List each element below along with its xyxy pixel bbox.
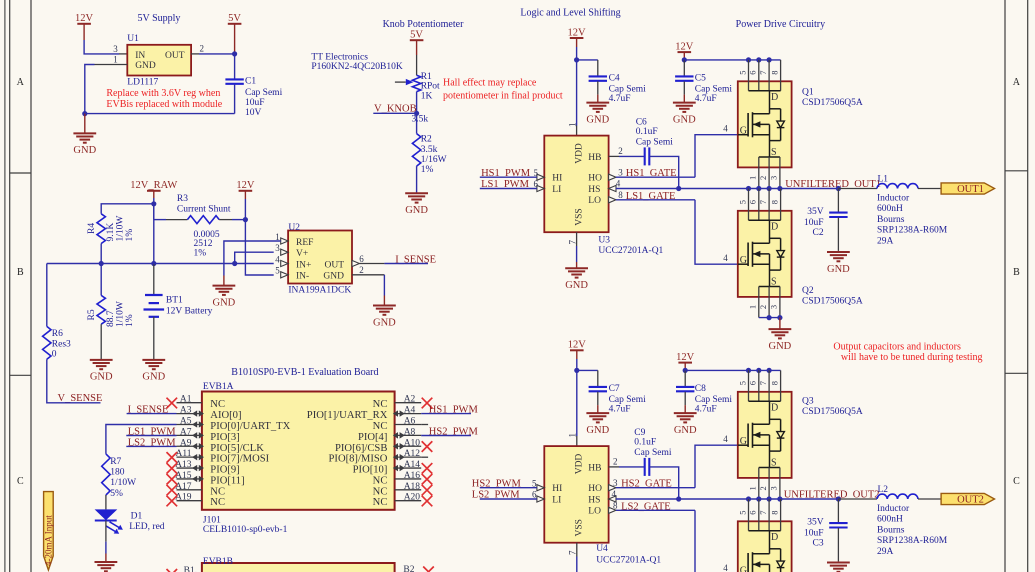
svg-text:A19: A19: [175, 493, 192, 503]
wire HS1_PWM to HI: [480, 176, 537, 178]
pin A10 PIO[6]/CSB: [395, 445, 422, 447]
svg-text:CSD17506Q5A: CSD17506Q5A: [802, 297, 863, 307]
pin A4 PIO[1]/UART_RX: [395, 413, 422, 415]
svg-text:6: 6: [748, 200, 758, 204]
svg-text:5V Supply: 5V Supply: [138, 13, 181, 24]
svg-text:1: 1: [748, 486, 758, 490]
connector EVB1A: [202, 392, 395, 510]
svg-text:S: S: [771, 457, 777, 468]
svg-text:VSS: VSS: [575, 519, 585, 536]
svg-text:2: 2: [758, 486, 768, 490]
power 12V_RAW: [130, 180, 177, 198]
resistor R7: [102, 454, 110, 495]
wire LS2_PWM to A9: [126, 445, 176, 447]
junction Q2 source: [767, 315, 772, 320]
ground: [586, 405, 609, 436]
svg-text:12V: 12V: [236, 180, 255, 191]
svg-text:V+: V+: [296, 249, 308, 259]
svg-text:R3: R3: [177, 194, 188, 204]
wire REF to gnd: [224, 241, 281, 276]
junction Q1 drain pins: [746, 57, 751, 62]
svg-text:Inductor: Inductor: [877, 504, 910, 514]
wire R2 to gnd: [416, 166, 418, 193]
ground: [213, 276, 236, 309]
wire R7 to D1: [105, 495, 107, 509]
port 4-20mA Input: [44, 492, 54, 570]
pin A2 NC: [395, 402, 422, 404]
svg-text:U4: U4: [596, 544, 608, 554]
wire HS2_GATE to Q3 gate: [616, 487, 695, 489]
ground: [769, 318, 792, 352]
svg-text:EVB1B: EVB1B: [203, 557, 233, 567]
wire 12V rail to Q3 drain: [685, 369, 780, 371]
svg-text:LI: LI: [552, 185, 561, 195]
svg-text:PIO[4]: PIO[4]: [358, 432, 387, 443]
wire LS2_PWM to LI: [480, 498, 537, 500]
svg-text:6: 6: [534, 179, 539, 189]
svg-text:Knob Potentiometer: Knob Potentiometer: [383, 19, 464, 30]
svg-text:PIO[1]/UART_RX: PIO[1]/UART_RX: [307, 410, 388, 421]
svg-text:C: C: [1013, 476, 1020, 487]
svg-text:EVBis replaced with module: EVBis replaced with module: [106, 99, 222, 110]
gate driver U4 UCC27201A-Q1: [544, 446, 608, 543]
wire R4 to junction: [100, 244, 102, 264]
svg-text:5: 5: [275, 266, 280, 276]
svg-text:CSD17506Q5A: CSD17506Q5A: [802, 98, 863, 108]
svg-text:A13: A13: [175, 460, 192, 470]
svg-text:UCC27201A-Q1: UCC27201A-Q1: [598, 246, 663, 256]
pin arrows U2: [281, 238, 288, 244]
svg-text:4: 4: [612, 489, 617, 499]
wire gnd rail to C1: [85, 113, 235, 115]
junction divider mid: [99, 261, 104, 266]
wire R1 to V_KNOB node: [416, 92, 418, 134]
svg-text:B: B: [17, 267, 24, 278]
svg-text:C5: C5: [695, 74, 706, 84]
wire 12V_RAW stem: [153, 198, 155, 204]
svg-text:10V: 10V: [245, 108, 262, 118]
svg-text:5V: 5V: [228, 13, 241, 24]
resistor R6: [46, 264, 48, 327]
svg-text:4.7uF: 4.7uF: [695, 94, 717, 104]
wire U1 pin2 to 5V: [191, 53, 199, 55]
wire HS to switch node: [616, 188, 679, 190]
svg-text:PIO[9]: PIO[9]: [210, 465, 239, 476]
svg-text:3: 3: [618, 167, 623, 177]
svg-text:Hall effect may replace: Hall effect may replace: [443, 78, 537, 89]
svg-text:C2: C2: [813, 228, 824, 238]
wire U3 VSS to gnd: [576, 232, 578, 246]
svg-text:Output capacitors and inductor: Output capacitors and inductors: [833, 342, 961, 353]
svg-text:PIO[7]/MOSI: PIO[7]/MOSI: [210, 454, 269, 465]
svg-text:7: 7: [568, 240, 578, 245]
svg-text:12V: 12V: [675, 42, 694, 53]
svg-text:12V: 12V: [568, 340, 587, 351]
svg-text:1: 1: [748, 305, 758, 309]
capacitor C2: [836, 186, 841, 191]
svg-text:Cap Semi: Cap Semi: [634, 448, 672, 458]
ground: [674, 405, 697, 436]
svg-text:Current Shunt: Current Shunt: [177, 205, 231, 215]
svg-text:HO: HO: [588, 174, 602, 184]
pin A14 PIO[10]: [395, 467, 422, 469]
junction 12V_RAW branch: [151, 201, 156, 206]
svg-text:P160KN2-4QC20B10K: P160KN2-4QC20B10K: [311, 62, 402, 72]
ground: [73, 114, 96, 157]
svg-text:will have to be tuned during t: will have to be tuned during testing: [841, 352, 983, 363]
svg-text:D: D: [771, 92, 778, 103]
svg-text:NC: NC: [373, 475, 388, 486]
svg-text:CSD17506Q5A: CSD17506Q5A: [802, 407, 863, 417]
ground: [405, 193, 428, 216]
svg-text:B1.: B1.: [184, 566, 197, 572]
svg-text:A5: A5: [180, 416, 192, 426]
no-connect marks right: [422, 398, 433, 409]
wire 12V to U1 pin3: [84, 40, 119, 54]
svg-text:NC: NC: [210, 399, 225, 410]
wire LS1_PWM to A7: [126, 435, 176, 437]
svg-text:4: 4: [723, 253, 728, 263]
wire 12V to U4 VDD: [576, 359, 578, 436]
wire to R4: [101, 204, 154, 214]
svg-text:4: 4: [723, 124, 728, 134]
wire from A12: [421, 456, 428, 458]
svg-text:3: 3: [769, 305, 779, 309]
svg-text:GND: GND: [73, 145, 96, 156]
svg-text:7: 7: [568, 550, 578, 555]
port OUT1: [941, 183, 994, 194]
svg-text:A4: A4: [404, 406, 416, 416]
svg-text:IN+: IN+: [296, 260, 311, 270]
svg-text:12V: 12V: [568, 27, 587, 38]
svg-text:Cap Semi: Cap Semi: [245, 88, 283, 98]
svg-text:J101: J101: [203, 515, 221, 525]
junction 12V U3: [574, 57, 579, 62]
ground: [827, 251, 850, 275]
svg-text:1/16W: 1/16W: [421, 155, 447, 165]
svg-text:Res3: Res3: [52, 339, 71, 349]
svg-text:2: 2: [618, 146, 623, 156]
wire V_KNOB: [373, 112, 416, 114]
transistor Q4 CSD17506Q5A: [738, 499, 792, 572]
svg-text:A10: A10: [404, 438, 421, 448]
svg-text:A17: A17: [175, 482, 192, 492]
capacitor C7: [577, 369, 598, 371]
power 12V: [75, 13, 94, 40]
svg-text:6: 6: [748, 381, 758, 385]
svg-text:R5: R5: [87, 309, 97, 320]
transistor Q1 CSD17506Q5A: [738, 60, 792, 189]
svg-text:3: 3: [613, 478, 618, 488]
svg-text:8: 8: [618, 190, 623, 200]
power 12V: [676, 352, 695, 370]
svg-text:5V: 5V: [410, 30, 423, 41]
svg-text:35V: 35V: [807, 518, 824, 528]
svg-text:GND: GND: [142, 372, 165, 383]
svg-text:7: 7: [758, 71, 768, 75]
power 12V: [568, 340, 587, 359]
svg-text:A8: A8: [404, 427, 416, 437]
svg-text:G: G: [740, 436, 747, 447]
svg-text:NC: NC: [210, 497, 225, 508]
transistor Q3 CSD17506Q5A: [738, 370, 792, 499]
svg-text:GND: GND: [769, 341, 792, 352]
svg-text:GND: GND: [323, 272, 344, 282]
svg-text:12V: 12V: [676, 352, 695, 363]
svg-text:Q3: Q3: [802, 397, 814, 407]
capacitor C1: [234, 54, 236, 79]
svg-text:HI: HI: [552, 174, 562, 184]
junction 12V C5/Q1: [682, 57, 687, 62]
svg-text:AIO[0]: AIO[0]: [210, 410, 241, 421]
wire LS1_GATE to Q2 gate: [616, 199, 695, 201]
svg-text:1/10W: 1/10W: [110, 478, 136, 488]
ground: [90, 360, 113, 383]
svg-text:S: S: [771, 147, 777, 158]
svg-text:A: A: [17, 77, 25, 88]
svg-text:D: D: [771, 221, 778, 232]
svg-text:7: 7: [758, 511, 768, 515]
svg-text:A: A: [1013, 77, 1021, 88]
wire Q2 source bus: [759, 317, 780, 319]
ground: [673, 95, 696, 126]
svg-text:3: 3: [275, 243, 280, 253]
pin A17 NC: [177, 489, 202, 491]
svg-text:C1: C1: [245, 76, 256, 86]
wire sense bus: [47, 263, 101, 265]
pin A16 NC: [395, 478, 422, 480]
pin A8 PIO[4]: [395, 434, 422, 436]
svg-text:A7: A7: [180, 427, 192, 437]
svg-text:D: D: [771, 402, 778, 413]
resistor R4: [97, 214, 105, 244]
svg-text:UCC27201A-Q1: UCC27201A-Q1: [596, 556, 661, 566]
svg-text:Q1: Q1: [802, 88, 814, 98]
svg-text:A16: A16: [404, 471, 421, 481]
svg-text:HB: HB: [588, 153, 601, 163]
svg-text:600nH: 600nH: [877, 515, 903, 525]
svg-text:4.7uF: 4.7uF: [609, 404, 631, 414]
svg-text:NC: NC: [373, 421, 388, 432]
wire HS2 to switch node: [616, 498, 679, 500]
svg-text:1%: 1%: [125, 229, 135, 242]
wire 12V to U2 IN-: [245, 199, 273, 275]
svg-text:GND: GND: [135, 61, 156, 71]
wire from A6: [421, 424, 428, 426]
svg-text:1%: 1%: [194, 248, 207, 258]
svg-text:3.5k: 3.5k: [421, 145, 438, 155]
power 12V: [568, 27, 587, 47]
svg-text:A15: A15: [175, 471, 192, 481]
svg-text:5: 5: [737, 381, 747, 385]
wire U2 gnd pin2: [352, 274, 384, 276]
pin A3 AIO[0]: [177, 413, 202, 415]
svg-text:LI: LI: [552, 495, 561, 505]
svg-text:5: 5: [737, 200, 747, 204]
svg-text:1/10W: 1/10W: [116, 216, 126, 242]
svg-text:8: 8: [613, 501, 618, 511]
pin A19 NC: [177, 500, 202, 502]
svg-text:4.7uF: 4.7uF: [695, 404, 717, 414]
pin A18 NC: [395, 489, 422, 491]
junction 5V / C1: [232, 51, 237, 56]
svg-text:S: S: [771, 276, 777, 287]
svg-text:6: 6: [359, 254, 364, 264]
svg-text:10uF: 10uF: [804, 218, 824, 228]
svg-text:1: 1: [568, 433, 578, 438]
junction 12V U4: [574, 368, 579, 373]
svg-text:GND: GND: [586, 114, 609, 125]
wire 5V to R1: [416, 55, 418, 75]
svg-text:A14: A14: [404, 460, 421, 470]
svg-text:OUT: OUT: [324, 260, 344, 270]
svg-text:U1: U1: [127, 34, 139, 44]
svg-text:TT Electronics: TT Electronics: [311, 52, 368, 62]
wire V+ branch: [235, 252, 274, 263]
svg-text:VDD: VDD: [575, 143, 585, 164]
svg-text:R6: R6: [52, 329, 63, 339]
svg-text:0.1uF: 0.1uF: [636, 127, 658, 137]
svg-text:1: 1: [748, 176, 758, 180]
svg-text:Replace with 3.6V reg when: Replace with 3.6V reg when: [106, 88, 220, 99]
gate driver U3 UCC27201A-Q1: [544, 136, 608, 233]
pin A1 NC: [177, 402, 202, 404]
svg-text:IN-: IN-: [296, 272, 309, 282]
svg-text:CELB1010-sp0-evb-1: CELB1010-sp0-evb-1: [203, 525, 288, 535]
regulator U1 LD1117: [127, 45, 191, 76]
svg-text:OUT: OUT: [165, 51, 185, 61]
svg-text:IN: IN: [135, 51, 145, 61]
resistor R3 current shunt: [154, 219, 166, 221]
svg-text:C8: C8: [695, 384, 706, 394]
pin A12 PIO[8]/MISO: [395, 456, 422, 458]
capacitor C4: [577, 59, 598, 61]
wire C9 to HS node: [649, 467, 678, 499]
svg-text:NC: NC: [373, 399, 388, 410]
svg-text:Bourns: Bourns: [877, 215, 905, 225]
pin A6 NC: [395, 423, 422, 425]
wire A5 to R7: [106, 425, 177, 454]
junction V+ branch: [232, 261, 237, 266]
svg-text:C4: C4: [609, 74, 620, 84]
svg-text:A6: A6: [404, 416, 416, 426]
junction R3 right: [243, 217, 248, 222]
svg-text:U2: U2: [288, 223, 300, 233]
svg-text:GND: GND: [373, 317, 396, 328]
svg-text:G: G: [740, 255, 747, 266]
wire 12V_RAW down: [153, 204, 155, 220]
capacitor C5: [683, 60, 685, 76]
power 5V: [228, 13, 242, 54]
svg-text:1: 1: [113, 55, 118, 65]
svg-text:Bourns: Bourns: [877, 525, 905, 535]
svg-text:LED, red: LED, red: [129, 522, 165, 532]
wire HS2_PWM to HI: [480, 487, 537, 489]
svg-text:PIO[3]: PIO[3]: [210, 432, 239, 443]
wire C6 to HS node: [649, 156, 678, 188]
svg-text:GND: GND: [673, 114, 696, 125]
junction C9/HS2: [676, 496, 681, 501]
wire HS2_PWM from A8: [421, 435, 471, 437]
capacitor C8: [684, 370, 686, 386]
pin A7 PIO[3]: [177, 434, 202, 436]
svg-text:PIO[6]/CSB: PIO[6]/CSB: [335, 443, 387, 454]
svg-text:D1: D1: [131, 512, 143, 522]
svg-text:1: 1: [568, 123, 578, 128]
svg-text:6: 6: [532, 490, 537, 500]
svg-text:NC: NC: [210, 486, 225, 497]
svg-text:LO: LO: [588, 196, 601, 206]
svg-text:10uF: 10uF: [245, 98, 265, 108]
svg-text:Cap Semi: Cap Semi: [695, 84, 733, 94]
svg-text:C3: C3: [813, 539, 824, 549]
svg-text:B1010SP0-EVB-1 Evaluation Boar: B1010SP0-EVB-1 Evaluation Board: [231, 367, 378, 378]
svg-text:4.7uF: 4.7uF: [609, 94, 631, 104]
wire switch node UNFILTERED_OUT1: [749, 188, 839, 190]
svg-text:GND: GND: [674, 425, 697, 436]
wire 12V to U3 VDD: [576, 47, 578, 126]
pin A20 NC: [395, 500, 422, 502]
svg-text:OUT2: OUT2: [957, 495, 984, 506]
svg-text:SRP1238A-R60M: SRP1238A-R60M: [877, 226, 948, 236]
ground: [827, 561, 850, 571]
resistor R2: [412, 134, 420, 167]
svg-text:EVB1A: EVB1A: [203, 382, 234, 392]
junction switch node 2 pins: [746, 496, 751, 501]
pin A9 PIO[5]/CLK: [177, 445, 202, 447]
svg-text:600nH: 600nH: [877, 204, 903, 214]
wire LS2_GATE to Q4 gate: [616, 509, 695, 511]
power 12V: [236, 180, 255, 199]
svg-text:A18: A18: [404, 482, 421, 492]
svg-text:GND: GND: [90, 372, 113, 383]
svg-text:9.1K: 9.1K: [106, 223, 116, 242]
svg-text:10uF: 10uF: [804, 528, 824, 538]
junction C6/HS: [676, 186, 681, 191]
svg-text:4: 4: [616, 179, 621, 189]
svg-text:Cap Semi: Cap Semi: [609, 395, 647, 405]
svg-text:C6: C6: [636, 118, 647, 128]
svg-text:R4: R4: [87, 223, 97, 234]
svg-text:0.1uF: 0.1uF: [634, 438, 656, 448]
port OUT2: [941, 493, 994, 504]
svg-text:RPot: RPot: [421, 82, 440, 92]
svg-text:PIO[8]/MISO: PIO[8]/MISO: [329, 454, 388, 465]
wire R5 to gnd: [100, 324, 102, 360]
svg-text:Logic and Level Shifting: Logic and Level Shifting: [520, 8, 620, 19]
svg-text:4: 4: [723, 434, 728, 444]
svg-text:PIO[5]/CLK: PIO[5]/CLK: [210, 443, 264, 454]
svg-text:U3: U3: [598, 235, 610, 245]
svg-text:B: B: [1013, 267, 1020, 278]
pin A13 PIO[9]: [177, 467, 202, 469]
svg-text:2: 2: [758, 305, 768, 309]
svg-text:B2: B2: [403, 565, 414, 572]
svg-text:Cap Semi: Cap Semi: [609, 84, 647, 94]
wire U1 pin1 to ground rail: [95, 64, 128, 66]
svg-text:12V Battery: 12V Battery: [166, 307, 213, 317]
svg-text:PIO[11]: PIO[11]: [210, 475, 244, 486]
svg-text:35V: 35V: [807, 207, 824, 217]
svg-text:HB: HB: [588, 463, 601, 473]
svg-text:8: 8: [769, 381, 779, 385]
ground: [586, 95, 609, 126]
svg-text:2: 2: [200, 44, 205, 54]
svg-text:GND: GND: [586, 425, 609, 436]
svg-text:12V: 12V: [75, 13, 94, 24]
svg-text:R7: R7: [110, 457, 121, 467]
svg-text:REF: REF: [296, 238, 313, 248]
